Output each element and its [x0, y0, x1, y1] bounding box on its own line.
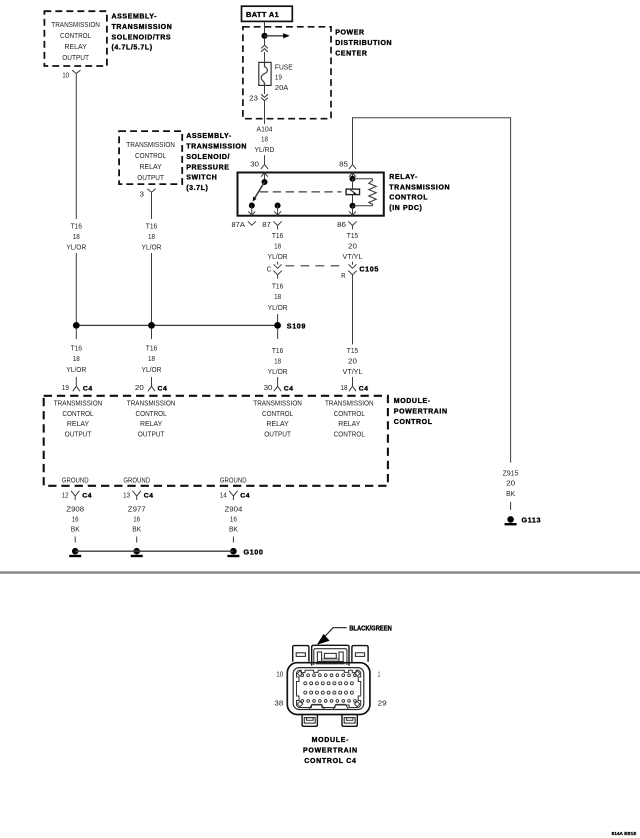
svg-text:CONTROL: CONTROL [62, 409, 93, 418]
svg-text:30: 30 [250, 160, 259, 169]
svg-text:C: C [267, 265, 272, 274]
svg-text:T16: T16 [71, 221, 82, 230]
svg-text:16: 16 [72, 515, 79, 524]
svg-text:BK: BK [132, 525, 141, 534]
svg-text:86: 86 [337, 220, 346, 229]
svg-text:YL/OR: YL/OR [142, 365, 162, 374]
svg-text:C4: C4 [158, 385, 168, 392]
svg-text:GROUND: GROUND [123, 476, 150, 485]
svg-text:CONTROL: CONTROL [60, 31, 91, 40]
svg-text:TRANSMISSION: TRANSMISSION [325, 399, 374, 408]
svg-text:14: 14 [220, 490, 227, 499]
svg-text:TRANSMISSION: TRANSMISSION [186, 144, 247, 151]
svg-text:(IN PDC): (IN PDC) [389, 205, 422, 212]
svg-text:CONTROL: CONTROL [136, 409, 167, 418]
svg-text:18: 18 [274, 292, 281, 301]
svg-text:POWER: POWER [335, 30, 364, 37]
svg-text:19: 19 [62, 383, 69, 392]
svg-text:TRANSMISSION: TRANSMISSION [51, 20, 100, 29]
svg-text:ASSEMBLY-: ASSEMBLY- [186, 133, 232, 140]
svg-text:S109: S109 [287, 322, 306, 331]
svg-text:RELAY: RELAY [67, 419, 89, 428]
svg-text:MODULE-: MODULE- [312, 737, 350, 744]
svg-text:PRESSURE: PRESSURE [186, 164, 229, 171]
svg-text:OUTPUT: OUTPUT [264, 430, 291, 439]
svg-text:T16: T16 [146, 344, 157, 353]
svg-text:18: 18 [73, 232, 80, 241]
svg-text:18: 18 [274, 242, 281, 251]
svg-text:BK: BK [506, 489, 515, 498]
svg-text:BATT A1: BATT A1 [246, 10, 279, 19]
svg-text:T16: T16 [272, 231, 283, 240]
svg-text:38: 38 [274, 699, 283, 708]
svg-text:18: 18 [341, 383, 348, 392]
svg-text:16: 16 [230, 515, 237, 524]
svg-text:TRANSMISSION: TRANSMISSION [54, 399, 103, 408]
svg-text:20: 20 [135, 383, 144, 392]
svg-text:OUTPUT: OUTPUT [65, 430, 92, 439]
svg-text:G100: G100 [244, 547, 264, 556]
svg-text:SWITCH: SWITCH [186, 175, 217, 182]
svg-text:FUSE: FUSE [275, 62, 293, 71]
svg-text:RELAY: RELAY [267, 419, 289, 428]
svg-text:Z915: Z915 [503, 468, 519, 477]
svg-text:Z904: Z904 [225, 504, 243, 513]
svg-text:OUTPUT: OUTPUT [138, 430, 165, 439]
svg-text:C4: C4 [144, 493, 154, 500]
svg-text:20: 20 [348, 357, 357, 366]
svg-text:ASSEMBLY-: ASSEMBLY- [112, 14, 158, 21]
svg-text:CONTROL: CONTROL [334, 409, 365, 418]
svg-text:POWERTRAIN: POWERTRAIN [303, 748, 358, 755]
svg-text:20: 20 [506, 479, 515, 488]
svg-text:20A: 20A [275, 83, 288, 92]
svg-text:VT/YL: VT/YL [343, 252, 363, 261]
svg-text:18: 18 [274, 357, 281, 366]
svg-text:SOLENOID/TRS: SOLENOID/TRS [112, 34, 172, 41]
svg-text:RELAY: RELAY [140, 419, 162, 428]
svg-text:YL/OR: YL/OR [66, 365, 86, 374]
svg-text:1: 1 [378, 669, 381, 678]
svg-text:18: 18 [148, 232, 155, 241]
svg-text:DISTRIBUTION: DISTRIBUTION [335, 40, 392, 47]
svg-text:YL/OR: YL/OR [142, 243, 162, 252]
svg-text:GROUND: GROUND [220, 476, 247, 485]
svg-text:T15: T15 [347, 231, 358, 240]
svg-text:CONTROL C4: CONTROL C4 [304, 758, 356, 765]
svg-text:BK: BK [71, 525, 80, 534]
svg-text:YL/OR: YL/OR [268, 252, 288, 261]
svg-text:87: 87 [262, 220, 271, 229]
svg-text:T15: T15 [347, 346, 358, 355]
svg-text:RELAY: RELAY [140, 162, 162, 171]
svg-text:85: 85 [339, 160, 348, 169]
svg-text:RELAY-: RELAY- [389, 174, 418, 181]
svg-text:19: 19 [275, 73, 282, 82]
svg-text:C4: C4 [359, 385, 369, 392]
svg-text:CONTROL: CONTROL [135, 151, 166, 160]
svg-text:CONTROL: CONTROL [334, 430, 365, 439]
svg-text:10: 10 [62, 71, 69, 80]
svg-text:C4: C4 [83, 385, 93, 392]
svg-text:12: 12 [62, 490, 69, 499]
svg-text:16: 16 [133, 515, 140, 524]
svg-text:TRANSMISSION: TRANSMISSION [253, 399, 302, 408]
svg-text:T16: T16 [71, 344, 82, 353]
svg-text:29: 29 [378, 699, 387, 708]
svg-text:CONTROL: CONTROL [262, 409, 293, 418]
svg-text:C4: C4 [284, 385, 294, 392]
svg-text:POWERTRAIN: POWERTRAIN [394, 408, 448, 415]
svg-text:18: 18 [73, 354, 80, 363]
svg-text:3: 3 [140, 189, 145, 198]
svg-text:GROUND: GROUND [62, 476, 89, 485]
svg-text:TRANSMISSION: TRANSMISSION [126, 140, 175, 149]
svg-text:(4.7L/5.7L): (4.7L/5.7L) [112, 45, 153, 52]
svg-text:TRANSMISSION: TRANSMISSION [389, 184, 450, 191]
svg-text:Z908: Z908 [66, 504, 84, 513]
svg-text:C4: C4 [240, 493, 250, 500]
svg-text:C4: C4 [82, 493, 92, 500]
svg-text:YL/OR: YL/OR [268, 303, 288, 312]
svg-text:30: 30 [264, 383, 273, 392]
svg-text:18: 18 [148, 354, 155, 363]
svg-text:814A EB1E: 814A EB1E [612, 831, 637, 836]
svg-text:CONTROL: CONTROL [394, 419, 433, 426]
svg-text:OUTPUT: OUTPUT [62, 53, 89, 62]
svg-text:CONTROL: CONTROL [389, 195, 428, 202]
svg-text:R: R [341, 271, 346, 280]
svg-text:OUTPUT: OUTPUT [137, 173, 164, 182]
svg-text:G113: G113 [522, 516, 542, 525]
svg-text:T16: T16 [146, 221, 157, 230]
svg-text:YL/RD: YL/RD [255, 145, 275, 154]
svg-text:YL/OR: YL/OR [66, 243, 86, 252]
svg-text:20: 20 [348, 242, 357, 251]
svg-text:87A: 87A [232, 220, 245, 229]
svg-text:T16: T16 [272, 346, 283, 355]
svg-text:23: 23 [249, 93, 258, 102]
svg-text:Z977: Z977 [128, 504, 146, 513]
svg-text:A104: A104 [257, 124, 273, 133]
svg-text:BLACK/GREEN: BLACK/GREEN [349, 626, 392, 633]
svg-text:18: 18 [261, 135, 268, 144]
svg-text:YL/OR: YL/OR [268, 367, 288, 376]
svg-text:CENTER: CENTER [335, 50, 367, 57]
svg-text:10: 10 [276, 669, 283, 678]
svg-text:T16: T16 [272, 282, 283, 291]
svg-text:RELAY: RELAY [338, 419, 360, 428]
svg-text:VT/YL: VT/YL [343, 367, 363, 376]
svg-text:(3.7L): (3.7L) [186, 185, 208, 192]
svg-text:BK: BK [229, 525, 238, 534]
svg-text:TRANSMISSION: TRANSMISSION [127, 399, 176, 408]
svg-text:TRANSMISSION: TRANSMISSION [112, 24, 173, 31]
svg-text:C105: C105 [359, 264, 379, 273]
svg-text:SOLENOID/: SOLENOID/ [186, 154, 230, 161]
svg-text:13: 13 [123, 490, 130, 499]
svg-text:RELAY: RELAY [65, 42, 87, 51]
svg-text:MODULE-: MODULE- [394, 398, 431, 405]
